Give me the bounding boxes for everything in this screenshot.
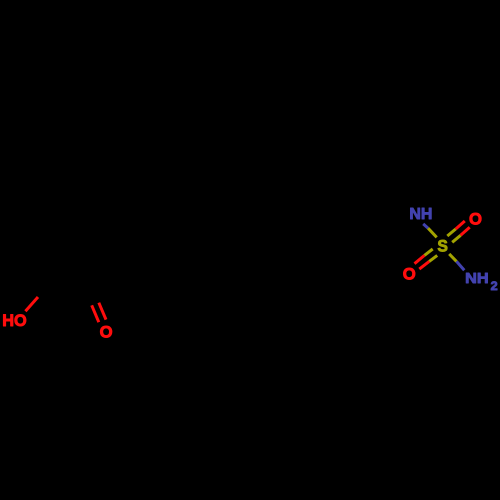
svg-text:O: O bbox=[403, 265, 416, 284]
bond S1=O1 double bond line 2 (O half) bbox=[461, 227, 470, 235]
bond N1-S1 (S half) bbox=[428, 228, 437, 237]
svg-text:S: S bbox=[437, 237, 448, 256]
bond C20=O20 ketone double bond line 2 (O half) bbox=[99, 303, 106, 320]
bond S1-N2 (S half) bbox=[449, 254, 456, 262]
bond S1-N2 (N half) bbox=[457, 261, 465, 270]
bond S1=O1 double bond line 2 (S half) bbox=[452, 235, 460, 242]
bond S1=O1 double bond line 1 (S half) bbox=[447, 229, 455, 236]
svg-text:HO: HO bbox=[2, 311, 27, 330]
svg-text:NH: NH bbox=[409, 206, 432, 223]
svg-text:2: 2 bbox=[491, 281, 498, 293]
bond S1=O2 double bond line 1 (O half) bbox=[415, 255, 425, 263]
svg-text:O: O bbox=[100, 323, 113, 342]
bond S1=O2 double bond line 2 (O half) bbox=[419, 261, 429, 269]
svg-text:NH: NH bbox=[465, 270, 489, 287]
bond S1=O2 double bond line 2 (S half) bbox=[429, 255, 437, 261]
svg-text:O: O bbox=[469, 210, 482, 229]
bond S1=O2 double bond line 1 (S half) bbox=[424, 249, 432, 255]
bond S1=O1 double bond line 1 (O half) bbox=[456, 221, 465, 229]
bond C20=O20 ketone double bond line 1 (O half) bbox=[92, 305, 99, 322]
bond N1-S1 (N half) bbox=[423, 224, 428, 228]
bond O21-C21 (hydroxymethyl, O half) bbox=[25, 297, 38, 311]
